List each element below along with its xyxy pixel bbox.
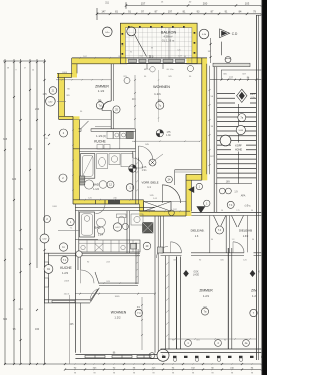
svg-text:1.9n: 1.9n: [166, 134, 171, 137]
svg-text:90: 90: [252, 239, 254, 241]
svg-text:2408: 2408: [64, 281, 70, 283]
svg-text:1.3: 1.3: [232, 239, 235, 241]
svg-text:WOHNEN: WOHNEN: [153, 85, 170, 89]
svg-text:1.3: 1.3: [195, 235, 199, 238]
svg-text:240: 240: [35, 108, 40, 111]
svg-text:WOHNEN: WOHNEN: [111, 310, 127, 314]
svg-text:90: 90: [211, 239, 213, 241]
svg-text:1.1/1: 1.1/1: [154, 92, 161, 96]
svg-text:200: 200: [203, 1, 208, 5]
svg-text:GOK: GOK: [193, 271, 199, 273]
svg-text:311: 311: [105, 1, 109, 4]
svg-text:APA: APA: [241, 195, 246, 198]
svg-text:2408: 2408: [62, 72, 68, 74]
svg-text:BAD: BAD: [95, 225, 101, 229]
svg-text:210: 210: [19, 308, 24, 311]
svg-text:1.1/4: 1.1/4: [93, 187, 99, 191]
svg-text:103: 103: [245, 1, 250, 5]
svg-text:1.3/2: 1.3/2: [243, 235, 249, 238]
svg-text:1.1: 1.1: [147, 185, 151, 189]
svg-text:KUCHE: KUCHE: [94, 140, 106, 144]
svg-text:1.9n: 1.9n: [251, 97, 256, 99]
svg-text:1.2/2: 1.2/2: [114, 316, 121, 320]
svg-text:160: 160: [35, 328, 40, 331]
svg-text:147: 147: [101, 11, 106, 14]
svg-text:KUCHE: KUCHE: [60, 266, 72, 270]
svg-text:GL 1.26 m: GL 1.26 m: [162, 38, 175, 42]
svg-text:ZIMMER: ZIMMER: [95, 84, 109, 88]
svg-text:345: 345: [3, 138, 8, 141]
svg-text:420: 420: [12, 178, 17, 181]
svg-text:1.1/2: 1.1/2: [98, 89, 105, 93]
svg-text:1.2: 1.2: [252, 294, 256, 298]
svg-text:DIELE/AB.: DIELE/AB.: [191, 229, 205, 233]
svg-text:DIELE/AB: DIELE/AB: [239, 229, 252, 233]
svg-text:380: 380: [3, 318, 8, 321]
svg-text:5-86: 5-86: [239, 130, 244, 132]
svg-text:LAGE: LAGE: [193, 274, 200, 277]
svg-text:HOHE: HOHE: [235, 148, 242, 151]
svg-text:90: 90: [251, 210, 253, 212]
svg-text:1005: 1005: [115, 296, 121, 298]
svg-text:∅9 c: ∅9 c: [245, 204, 252, 208]
svg-text:4.58 m²: 4.58 m²: [163, 35, 172, 39]
svg-text:1.1/3 (2): 1.1/3 (2): [96, 134, 106, 138]
svg-text:7.1: 7.1: [70, 228, 73, 230]
svg-text:1.9n: 1.9n: [142, 169, 147, 172]
svg-text:125: 125: [43, 93, 48, 96]
svg-text:BAD: BAD: [93, 183, 100, 187]
svg-text:1.2/3: 1.2/3: [62, 271, 68, 275]
svg-text:175: 175: [236, 210, 239, 212]
svg-text:VORR./DIELE: VORR./DIELE: [141, 181, 158, 185]
svg-text:56: 56: [221, 210, 223, 212]
svg-text:525: 525: [19, 248, 24, 251]
svg-text:KOPF: KOPF: [235, 145, 242, 148]
svg-text:BALKON: BALKON: [161, 31, 177, 35]
svg-text:ZIMMER: ZIMMER: [199, 288, 213, 292]
svg-text:197: 197: [168, 11, 173, 14]
svg-text:1.2/1: 1.2/1: [203, 294, 210, 298]
svg-text:240.3: 240.3: [64, 294, 70, 296]
svg-text:LIFT: LIFT: [250, 93, 256, 96]
svg-text:390: 390: [28, 148, 33, 151]
svg-text:C.D: C.D: [232, 32, 238, 36]
svg-text:157: 157: [141, 1, 146, 5]
svg-text:G: G: [258, 271, 260, 273]
svg-text:ZIM: ZIM: [251, 288, 257, 292]
svg-text:1.3/4: 1.3/4: [98, 233, 104, 236]
svg-text:GL 1.9n: GL 1.9n: [166, 69, 173, 71]
